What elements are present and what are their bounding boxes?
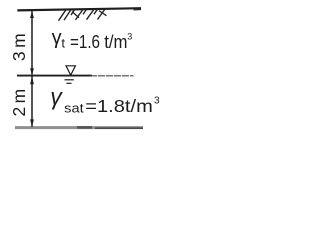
- arrowhead down at bottom line: [30, 119, 34, 126]
- soil layer 2 label: gamma_sat = 1.8 t/m3: [50, 84, 160, 117]
- svg-text:γ: γ: [52, 27, 62, 49]
- soil layer 1 label: gamma_t = 1.6 t/m3: [52, 27, 133, 52]
- svg-text:t/m: t/m: [104, 32, 127, 52]
- water table symbol: [65, 66, 76, 84]
- arrowhead up below water table: [30, 77, 34, 85]
- svg-text:=1.8t/m: =1.8t/m: [85, 96, 153, 116]
- svg-text:γ: γ: [50, 84, 63, 110]
- svg-text:3: 3: [154, 95, 160, 106]
- arrowhead up at ground line: [30, 11, 34, 18]
- arrowhead down at water table: [30, 68, 34, 75]
- tick at right end of ground line: [134, 9, 142, 11]
- ground surface line: [17, 8, 141, 10]
- svg-text:=1.6: =1.6: [70, 32, 100, 52]
- svg-text:3m: 3m: [9, 30, 29, 61]
- svg-text:sat: sat: [64, 101, 84, 116]
- bottom boundary line: [15, 126, 143, 129]
- svg-text:t: t: [61, 35, 65, 50]
- svg-text:2m: 2m: [9, 85, 29, 116]
- svg-text:3: 3: [127, 32, 132, 42]
- ground hatching: [59, 9, 107, 21]
- water table boundary line: [17, 75, 92, 77]
- dimension line: [31, 10, 33, 127]
